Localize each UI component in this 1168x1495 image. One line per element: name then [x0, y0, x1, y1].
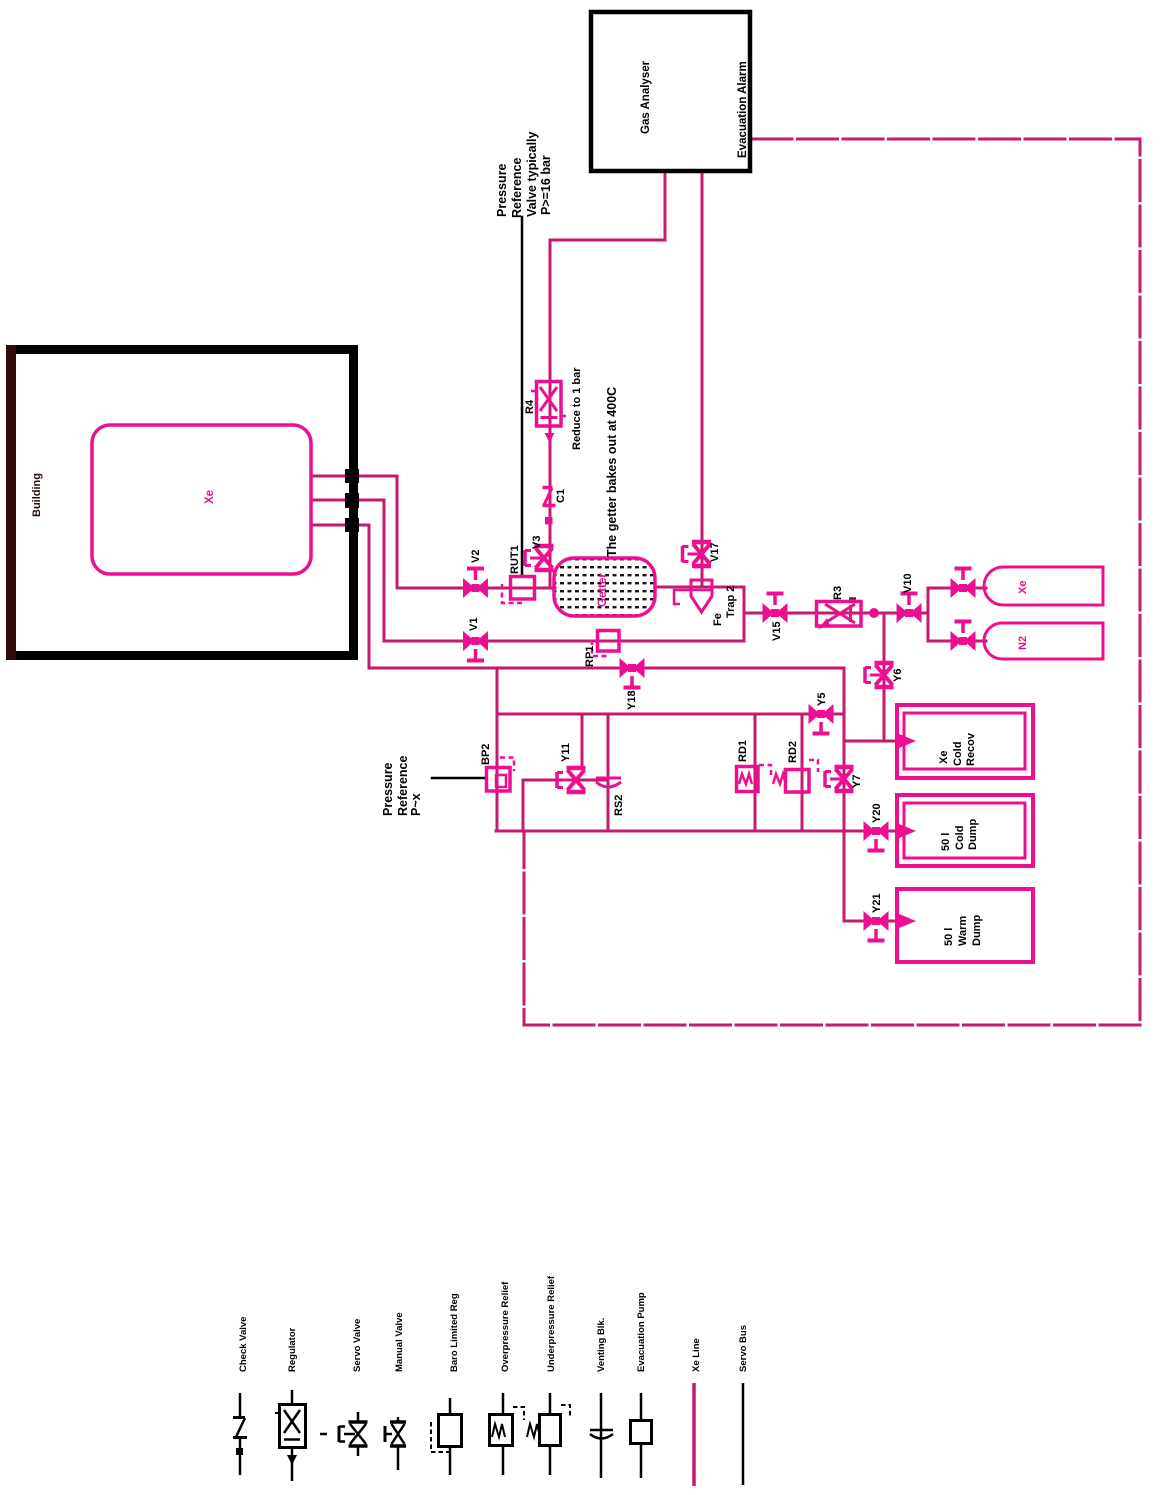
svg-text:V2: V2 [470, 550, 482, 563]
valve V10 [897, 603, 922, 623]
cylinder valve Xe [951, 578, 976, 598]
wire bus 714 [497, 713, 844, 716]
svg-text:Dump: Dump [967, 819, 979, 850]
valve Y21 [864, 911, 889, 931]
svg-text:R3: R3 [832, 586, 844, 600]
wire gas analyser to regulator R4 branch [550, 173, 665, 588]
wire venting drop RS2 [607, 714, 610, 831]
arrow into warm dump [898, 914, 916, 929]
Fe trap 2 funnel [674, 580, 712, 612]
svg-text:Xe Line: Xe Line [691, 1338, 702, 1372]
wire Y6 drop from R3 line [883, 613, 886, 741]
getter vessel [554, 558, 655, 616]
regulator RUT1 [502, 577, 535, 604]
svg-text:RD2: RD2 [787, 741, 799, 763]
svg-text:V1: V1 [468, 618, 480, 631]
svg-text:RD1: RD1 [737, 740, 749, 762]
svg-text:P>=16 bar: P>=16 bar [539, 155, 553, 215]
svg-text:50 l: 50 l [943, 928, 955, 946]
svg-text:R4: R4 [524, 399, 536, 414]
servo bus black line to RUT1 [521, 217, 524, 576]
building outline [11, 350, 354, 656]
valve Y20 [864, 821, 889, 841]
servo valve V17 [683, 542, 712, 566]
wire RD1 drop [754, 714, 757, 831]
cylinder Xe [984, 567, 1103, 605]
svg-text:Regulator: Regulator [287, 1327, 298, 1372]
svg-text:Manual Valve: Manual Valve [394, 1312, 405, 1372]
svg-text:C1: C1 [555, 489, 567, 503]
cold dump box [897, 795, 1033, 866]
svg-text:V15: V15 [771, 621, 783, 641]
wire from building port 1 to valve V2 (Xe line 1) [311, 476, 462, 588]
legend regulator symbol [291, 1390, 294, 1404]
svg-text:Underpressure Relief: Underpressure Relief [546, 1275, 557, 1372]
svg-text:Venting Blk.: Venting Blk. [596, 1318, 607, 1372]
regulator BP2 [487, 758, 515, 792]
servo bus black line to BP2 [432, 777, 486, 780]
svg-text:Overpressure Relief: Overpressure Relief [500, 1281, 511, 1372]
valve Y5 [809, 704, 834, 724]
svg-text:P~x: P~x [409, 793, 423, 816]
wire line 831 to cold dump [496, 830, 902, 833]
regulator R3 [817, 599, 862, 630]
arrow into Xe cold recovery [898, 734, 916, 749]
wire V1 to RP1 to manifold [489, 640, 744, 643]
venting unit RS2 [596, 778, 621, 787]
wire bus 844 vertical [843, 668, 846, 921]
svg-text:Servo Bus: Servo Bus [738, 1325, 749, 1372]
svg-text:Evacuation Alarm: Evacuation Alarm [737, 61, 749, 158]
legend overpressure relief symbol [502, 1393, 505, 1414]
svg-text:Reference: Reference [396, 756, 410, 816]
svg-text:BP2: BP2 [480, 744, 492, 765]
svg-text:Cold: Cold [952, 742, 964, 766]
svg-text:Pressure: Pressure [381, 762, 395, 816]
svg-text:50 l: 50 l [940, 833, 952, 851]
valve Y18 [620, 658, 645, 678]
svg-text:Reduce to 1 bar: Reduce to 1 bar [571, 367, 583, 450]
svg-text:V10: V10 [902, 573, 914, 593]
valve V15 [763, 603, 788, 623]
servo valve V3 [525, 546, 554, 570]
wire manifold to R3 to cylinders [744, 588, 950, 613]
wire Y11 drop from bus [581, 714, 584, 767]
legend xe line sample [692, 1383, 696, 1486]
building wall port 1 [345, 469, 359, 483]
underpressure relief RD2 [773, 760, 818, 792]
wire line 921 to warm dump [844, 920, 902, 923]
wire cylinder branch lower [928, 613, 950, 641]
gas analyser box [591, 12, 750, 171]
svg-text:N2: N2 [1017, 636, 1029, 650]
svg-text:Xe: Xe [204, 490, 216, 504]
svg-text:Dump: Dump [971, 915, 983, 946]
wire BP2 drop [496, 714, 499, 831]
servo valve Y6 [865, 663, 894, 687]
svg-text:RUT1: RUT1 [509, 545, 521, 574]
valve V2 [463, 578, 488, 598]
legend baro limited reg symbol [449, 1398, 452, 1414]
svg-text:Pressure: Pressure [495, 163, 509, 217]
svg-text:Getter: Getter [597, 573, 609, 607]
wire Y11 pilot line [523, 780, 608, 831]
warm dump box [897, 889, 1033, 962]
svg-text:Xe: Xe [1017, 581, 1029, 594]
svg-text:V3: V3 [531, 536, 543, 549]
svg-text:Valve typically: Valve typically [525, 131, 539, 217]
wire V2 to RUT1 to getter [489, 587, 555, 590]
svg-text:Xe: Xe [938, 751, 950, 764]
svg-text:RP1: RP1 [584, 646, 596, 667]
wire getter outlet line 1 to manifold riser [655, 587, 744, 641]
wire from building port 2 to valve V1 (Xe line 2) [311, 500, 462, 641]
servo valve Y11 [557, 768, 586, 792]
building wall port 2 [345, 493, 359, 508]
svg-text:Y20: Y20 [871, 803, 883, 823]
svg-text:Check Valve: Check Valve [238, 1317, 249, 1372]
legend venting blk symbol [600, 1393, 603, 1478]
legend underpressure relief symbol [549, 1393, 552, 1414]
building wall port 3 [345, 518, 359, 532]
detector enclosure [92, 425, 311, 574]
legend servo bus sample [742, 1383, 745, 1485]
legend servo valve symbol [320, 1433, 327, 1436]
svg-text:Cold: Cold [954, 826, 966, 850]
Xe cold recovery box [897, 705, 1033, 778]
svg-text:Y18: Y18 [626, 690, 638, 710]
svg-text:Warm: Warm [957, 916, 969, 946]
svg-text:Y7: Y7 [851, 775, 863, 788]
svg-text:Servo Valve: Servo Valve [352, 1319, 363, 1372]
regulator RP1 [592, 631, 619, 657]
regulator R4 [531, 382, 566, 444]
cylinder valve N2 [951, 631, 976, 651]
svg-text:Building: Building [31, 473, 43, 517]
valve V1 [463, 631, 488, 651]
svg-text:Trap 2: Trap 2 [725, 586, 737, 618]
svg-text:Evacuation Pump: Evacuation Pump [636, 1292, 647, 1372]
svg-text:The getter bakes out at 400C: The getter bakes out at 400C [605, 387, 619, 557]
arrow into cold dump [898, 824, 916, 839]
svg-text:RS2: RS2 [613, 795, 625, 816]
cylinder N2 [984, 623, 1103, 659]
wire cylinder branch upper [976, 587, 986, 590]
svg-text:Fe: Fe [712, 613, 724, 626]
junction node dot [869, 608, 879, 618]
svg-text:Y5: Y5 [816, 693, 828, 706]
legend manual valve symbol [385, 1417, 406, 1470]
wire cylinder 2 stub [976, 640, 986, 643]
svg-text:Recov: Recov [965, 732, 977, 766]
svg-text:Reference: Reference [510, 158, 524, 218]
wire feed to Xe cold recovery [844, 740, 902, 743]
svg-text:Y11: Y11 [560, 743, 572, 762]
legend evacuation pump symbol [640, 1393, 643, 1478]
svg-text:Y21: Y21 [871, 893, 883, 913]
wire RD2 drop [801, 714, 804, 831]
svg-text:Baro Limited Reg: Baro Limited Reg [449, 1293, 460, 1372]
wire dashed evacuation loop [524, 139, 1140, 1025]
building left wall maroon edge [6, 345, 16, 660]
svg-text:Gas Analyser: Gas Analyser [640, 60, 652, 134]
check valve C1 [543, 488, 556, 525]
overpressure relief RD1 [737, 765, 772, 792]
wire drop from line 3 to bus 714 [496, 668, 499, 714]
servo valve Y7 [825, 767, 854, 791]
svg-text:Y6: Y6 [892, 669, 904, 682]
svg-text:V17: V17 [709, 542, 721, 562]
legend check valve symbol [239, 1393, 242, 1416]
wire gas analyser to valve V17 branch [701, 173, 704, 587]
wire from building port 3 to line 3 (Xe line 3) [311, 525, 844, 668]
